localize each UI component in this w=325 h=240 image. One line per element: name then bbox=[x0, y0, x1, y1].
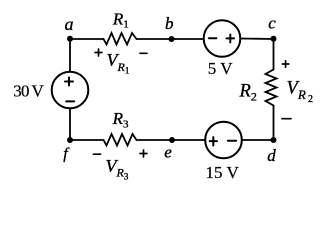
svg-text:5 V: 5 V bbox=[208, 59, 233, 78]
svg-text:d: d bbox=[267, 146, 276, 165]
svg-text:c: c bbox=[268, 14, 276, 33]
svg-text:e: e bbox=[164, 143, 172, 162]
svg-text:a: a bbox=[65, 14, 74, 34]
svg-text:b: b bbox=[165, 14, 174, 33]
svg-text:30 V: 30 V bbox=[13, 82, 44, 101]
svg-text:15 V: 15 V bbox=[206, 163, 240, 182]
